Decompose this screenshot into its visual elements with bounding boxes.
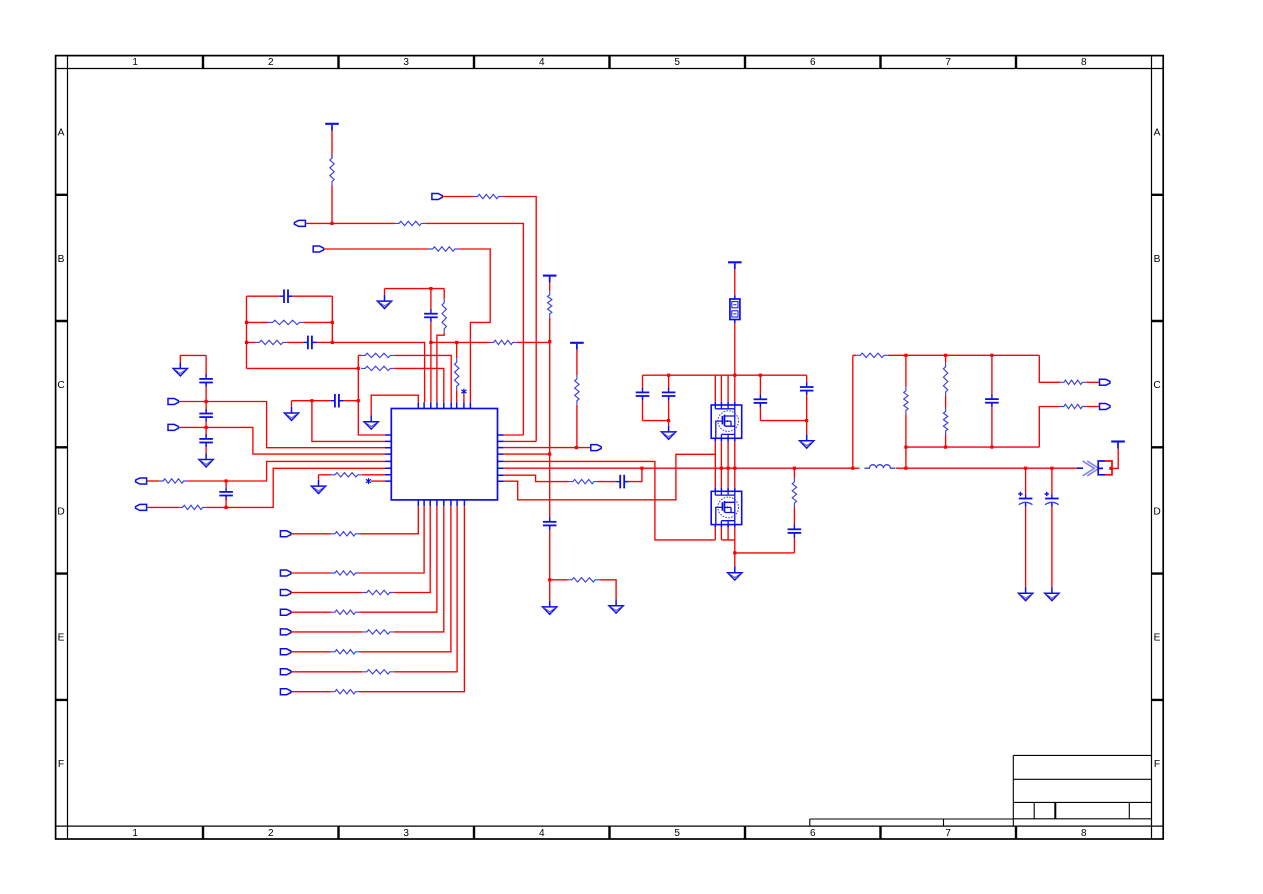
svg-text:F: F xyxy=(1154,759,1160,770)
svg-text:A: A xyxy=(1154,128,1161,139)
cap C13 lower lead xyxy=(806,395,808,420)
port CTL2 xyxy=(168,424,178,430)
caps chain vertical b xyxy=(205,387,207,412)
ground (C17) xyxy=(1019,587,1033,601)
capacitor C2 (RC low) xyxy=(303,336,316,350)
wire VCC1 to R1 xyxy=(331,131,333,158)
wire right pin row4 xyxy=(504,453,550,455)
capacitor C15 xyxy=(788,525,802,538)
RC box top branch wire xyxy=(247,295,280,297)
Q1 bottom lead stubs xyxy=(715,438,735,441)
wire R10 to top pin6 xyxy=(394,355,451,402)
RC mid branch wire right xyxy=(303,321,332,323)
svg-text:5: 5 xyxy=(674,828,680,839)
capacitor C1 (RC top) xyxy=(279,289,292,303)
divider top wire xyxy=(888,354,1039,356)
Q1 top lead stubs xyxy=(715,402,735,405)
wire VIN to bead xyxy=(734,269,736,295)
C16 leg upper xyxy=(991,355,993,395)
resistor R10 xyxy=(361,353,394,357)
junction bus288/cap leg xyxy=(429,287,432,290)
port P6 (bottom group) xyxy=(280,649,290,655)
svg-text:3: 3 xyxy=(403,828,409,839)
port OUT-M (mid) xyxy=(591,445,601,451)
capacitor C13 xyxy=(800,382,814,395)
junction chain/port row401 xyxy=(205,400,208,403)
ground (rail549) xyxy=(543,601,557,615)
wire port P5 to R34 xyxy=(291,631,363,633)
port P8 (bottom group) xyxy=(280,689,290,695)
rail549 to ground xyxy=(549,580,551,601)
junction Q2 source/ground node xyxy=(733,551,736,554)
C16 leg lower xyxy=(991,407,993,447)
junction row400/pinleg xyxy=(310,399,313,402)
junction capleg/RC-output-row xyxy=(429,341,432,344)
svg-text:D: D xyxy=(57,506,64,517)
wire 288.6 bus xyxy=(385,288,445,290)
capacitor C10 xyxy=(636,388,650,401)
capacitor C18 (polarized) xyxy=(1045,492,1059,507)
resistor R35 xyxy=(331,650,360,654)
resistor R33 xyxy=(331,610,360,614)
resistor R31 xyxy=(331,571,360,575)
port IN2 xyxy=(313,246,323,252)
RC low branch lead xyxy=(247,341,256,343)
capacitor C8 xyxy=(199,434,213,447)
svg-text:8: 8 xyxy=(1081,828,1087,839)
wire port CTL1 to left pin row3 xyxy=(179,402,385,448)
resistor R16 (vertical) xyxy=(792,478,796,507)
svg-text:8: 8 xyxy=(1081,57,1087,68)
caps chain vertical c xyxy=(205,422,207,438)
wire port P7 to R36 xyxy=(291,671,363,673)
port P2 (bottom group) xyxy=(280,570,290,576)
cap C13 upper lead xyxy=(806,375,808,383)
wire R24 bottom jog to top pin4 xyxy=(437,333,444,403)
wire R6 to power node xyxy=(517,341,550,343)
wire right pin row5 to LGATE xyxy=(504,461,716,540)
junction mid/R22 xyxy=(944,446,947,449)
port IN1 (right-point) xyxy=(432,194,442,200)
wire R15 to C14 xyxy=(598,481,616,483)
resistor R21 (vertical) xyxy=(943,363,947,396)
port FB1 (right) xyxy=(1100,379,1110,385)
ground (R7) xyxy=(609,600,623,614)
ground (caps chain) xyxy=(173,362,187,376)
resistor R8 (RC mid) xyxy=(269,320,304,324)
RC-row continues right of capleg xyxy=(431,341,457,343)
rail549 to cap C4 xyxy=(549,454,551,517)
wire R30 to bottom pin 1 xyxy=(360,506,419,534)
junction OUT/C17 xyxy=(1024,467,1027,470)
junction SW/Q lead3 xyxy=(727,467,730,470)
junction rail358/RC bottom xyxy=(357,367,360,370)
resistor R34 xyxy=(363,630,394,634)
junction VIN/C11 xyxy=(667,374,670,377)
wire rail358 top to R10 xyxy=(358,354,361,356)
ground (Q2 source) xyxy=(728,567,742,581)
wire port P4 to R33 xyxy=(291,611,331,613)
wire port P8 to R37 xyxy=(291,691,331,693)
capacitor C14 xyxy=(616,475,629,489)
svg-text:7: 7 xyxy=(945,828,951,839)
off-page connector chevrons xyxy=(1083,461,1099,476)
junction gndbus/C13 xyxy=(805,419,808,422)
cap C12 lower lead xyxy=(759,408,761,421)
wire C2 to right rail xyxy=(317,341,333,343)
cap leg lower to pin3 xyxy=(430,322,432,402)
wire R34 to bottom pin 5 xyxy=(394,506,444,632)
resistor R13 xyxy=(179,505,207,509)
wire top to FB port row xyxy=(1039,355,1060,382)
svg-text:D: D xyxy=(1153,506,1160,517)
R21/R22 leg top xyxy=(945,355,947,362)
cap C10 lower lead xyxy=(642,401,644,421)
port P1 (bottom group) xyxy=(280,531,290,537)
junction SW/snubber xyxy=(793,467,796,470)
wire Q2 source node to snubber xyxy=(735,552,795,554)
port P7 (bottom group) xyxy=(280,669,290,675)
wire C5 to rail358 xyxy=(344,400,359,402)
resistor R3 xyxy=(474,194,503,198)
wire bead to VIN bus xyxy=(734,323,736,375)
junction R19leg/mid wire xyxy=(904,446,907,449)
wire right pin row7 jog xyxy=(504,475,569,481)
gnd bus below C12/C13 xyxy=(760,420,806,422)
junction OUT/L-return xyxy=(904,467,907,470)
junction chain/port row427 xyxy=(205,426,208,429)
wire branch to R7 xyxy=(550,579,568,581)
resistor R7 xyxy=(568,578,599,582)
wire R36 to bottom pin 7 xyxy=(394,506,457,672)
wire port P6 to R35 xyxy=(291,651,331,653)
Q2 bottom lead stubs xyxy=(715,524,735,527)
junction SNS+/C9 xyxy=(225,479,228,482)
wire port to R2 xyxy=(305,222,395,224)
resistor R22 (vertical) xyxy=(943,408,947,436)
inductor L1 xyxy=(864,465,895,468)
resistor R5 (vertical) xyxy=(548,291,552,318)
power symbol VCC2 xyxy=(543,276,557,283)
wire C9 down to SNS- xyxy=(225,498,227,508)
resistor R11 xyxy=(361,366,394,370)
cap C11 lower lead xyxy=(668,401,670,421)
R22 to mid wire xyxy=(945,435,947,447)
wire VCC3 to R23 xyxy=(576,350,578,375)
junction RC left mid xyxy=(245,321,248,324)
capacitor C11 xyxy=(662,388,676,401)
wires VIN bus to Q1 top leads xyxy=(715,375,735,402)
wire R31 to bottom pin 2 xyxy=(360,506,425,573)
junction RC left low xyxy=(245,341,248,344)
divider mid wire xyxy=(906,446,1039,448)
wire port CTL2 to left pin row4 xyxy=(179,427,385,454)
gnd drop C13 xyxy=(806,421,808,435)
junction VIN/C12 xyxy=(759,374,762,377)
ground (caps chain bottom) xyxy=(199,453,213,467)
wire gnd corner row474 xyxy=(318,475,320,480)
wire R13 to corner up left pin row6 xyxy=(207,468,385,507)
wire R16 to C15 xyxy=(793,507,795,526)
wire port P1 to R30 xyxy=(291,533,331,535)
wire VCC2 to R5 xyxy=(549,283,551,291)
wire L1 to output node xyxy=(896,467,1077,469)
R19 leg upper xyxy=(905,355,907,387)
C18 upper lead xyxy=(1051,468,1053,494)
rail549 below C4 xyxy=(549,530,551,580)
resistor R1 (vertical) xyxy=(330,154,334,186)
resistor R14 xyxy=(331,473,362,477)
wire SNS- to R13 xyxy=(147,506,179,508)
no-connect asterisk (top pin8) xyxy=(461,389,466,395)
port CTL1 xyxy=(168,399,178,405)
resistor R4 xyxy=(429,247,459,251)
wire R14 to left pin row7 xyxy=(362,474,385,476)
resistor R37 xyxy=(331,690,360,694)
svg-text:B: B xyxy=(1154,254,1161,265)
wire R18 to port FB1 xyxy=(1086,381,1099,383)
wire R24 top corner xyxy=(443,289,445,299)
cap C12 upper lead xyxy=(759,375,761,396)
junction SW/Q lead4 xyxy=(733,467,736,470)
junction RC right low xyxy=(331,341,334,344)
C18 lower lead xyxy=(1051,507,1053,587)
resistor R32 xyxy=(363,590,394,594)
junction rail358/cap row xyxy=(357,399,360,402)
caps chain vertical a xyxy=(205,355,207,376)
svg-text:3: 3 xyxy=(403,57,409,68)
wire port P3 to R32 xyxy=(291,592,363,594)
wire R37 to bottom pin 8 xyxy=(360,506,465,692)
wire R1 to node row223 xyxy=(331,186,333,224)
junction rail549/right pin row4 xyxy=(548,453,551,456)
IC U1 (main controller) xyxy=(391,409,497,500)
resistor R19 (vertical) xyxy=(904,387,908,415)
C17 upper lead xyxy=(1025,468,1027,494)
ground (row400) xyxy=(284,407,298,421)
wire R3 to corner down to right pin row2 xyxy=(503,197,537,442)
junction connector/VOUT xyxy=(1109,467,1112,470)
wire mid to port row2 xyxy=(1039,407,1060,448)
wire port IN1 to R3 xyxy=(443,196,474,198)
resistor R36 xyxy=(363,670,394,674)
divider top wire lead xyxy=(853,354,856,356)
resistor R12 xyxy=(159,479,188,483)
junction top/R19 xyxy=(904,354,907,357)
svg-text:7: 7 xyxy=(945,57,951,68)
junction top/C16 xyxy=(990,354,993,357)
wire port IN2 to R4 xyxy=(324,248,429,250)
svg-text:6: 6 xyxy=(810,57,816,68)
ground (bus288) xyxy=(377,295,391,309)
capacitor C5 (row400) xyxy=(330,394,343,408)
wire right pin row3 to port xyxy=(504,447,591,449)
ground (C18) xyxy=(1045,587,1059,601)
wire R32 to bottom pin 3 xyxy=(394,506,430,592)
off-page connector box (red half) xyxy=(1105,461,1112,475)
ferrite bead FB1 xyxy=(730,299,740,320)
Q2 bottom leads to wires xyxy=(715,528,735,553)
rail x549 down xyxy=(549,342,551,454)
resistor R30 xyxy=(331,532,360,536)
divider rail left xyxy=(852,355,854,468)
junction midport xyxy=(575,446,578,449)
power symbol VIN xyxy=(728,262,742,269)
wire rail358 bottom to left pin row1 xyxy=(358,434,385,436)
resistor R24 (vertical) xyxy=(442,299,446,333)
power symbol VCC1 xyxy=(325,124,339,131)
capacitor C3 xyxy=(424,309,438,322)
svg-text:A: A xyxy=(58,128,65,139)
off-page connector blue tail xyxy=(1077,467,1083,469)
leg row400 to left pin row2 xyxy=(312,401,385,442)
capacitor C6 xyxy=(199,374,213,387)
pin7 leg upper xyxy=(456,342,458,358)
RC box left rail xyxy=(246,296,248,368)
capacitor C17 (polarized) xyxy=(1018,492,1032,507)
junction SW/R15C14 return xyxy=(640,467,643,470)
wire C15 to Q2 source node xyxy=(793,538,795,553)
off-page connector box (blue half) xyxy=(1098,461,1105,475)
sheet border frame xyxy=(56,56,1164,839)
wire R12 to corner up left pin row5 xyxy=(188,461,385,481)
svg-text:4: 4 xyxy=(539,828,545,839)
port P5 (bottom group) xyxy=(280,629,290,635)
ground (C10/C11) xyxy=(662,426,676,440)
no-connect asterisk (left pin row8) xyxy=(366,478,371,484)
wire R5 down to node342 xyxy=(549,318,551,342)
wire R2 to corner and down to right pin row1 xyxy=(425,223,523,435)
wire asterisk to top pin8 xyxy=(463,394,465,402)
port SNS- (left) xyxy=(136,504,147,510)
gnd drop caps chain top-left xyxy=(179,355,181,362)
wire connector to VOUT power xyxy=(1112,449,1118,469)
wire R7 to ground drop xyxy=(599,580,616,600)
cap leg upper xyxy=(430,289,432,310)
gnd bus below C10/C11 xyxy=(643,420,669,422)
junction RC right mid xyxy=(331,321,334,324)
wire port P2 to R31 xyxy=(291,572,331,574)
svg-text:B: B xyxy=(58,254,65,265)
resistor R15 xyxy=(569,479,598,483)
wire C14 up to SW junction xyxy=(629,468,642,481)
junction SNS-/C9 xyxy=(225,506,228,509)
wire row400 xyxy=(292,400,331,402)
ground drop left of bus288 xyxy=(384,289,386,295)
resistor R9 (RC low) xyxy=(255,340,286,344)
wire row342 to R6 xyxy=(457,341,490,343)
cap C11 upper lead xyxy=(668,375,670,389)
port P3 (bottom group) xyxy=(280,590,290,596)
wires Q1 bottom to Q2 top leads xyxy=(715,442,735,488)
power symbol VOUT xyxy=(1111,442,1125,449)
svg-text:C: C xyxy=(1153,380,1160,391)
R19 leg lower xyxy=(905,414,907,468)
capacitor C12 xyxy=(754,395,768,408)
ground (row474) xyxy=(311,480,325,494)
wire R9 to C2 xyxy=(287,341,304,343)
resistor R25 (vertical, pin7 leg) xyxy=(455,358,459,390)
ground (C12/C13) xyxy=(800,435,814,449)
svg-text:2: 2 xyxy=(268,57,274,68)
svg-text:4: 4 xyxy=(539,57,545,68)
junction row223/R1 xyxy=(330,222,333,225)
junction SW/Q lead2 xyxy=(720,467,723,470)
wire SNS+ down to C9 xyxy=(225,481,227,487)
ferrite bead FB1 stubs xyxy=(734,295,736,323)
wire SNS+ to R12 xyxy=(147,480,160,482)
resistor R17 xyxy=(856,353,888,357)
svg-text:E: E xyxy=(1154,633,1161,644)
resistor R23 (vertical) xyxy=(575,375,579,405)
wire row474 lead xyxy=(319,474,332,476)
svg-text:F: F xyxy=(58,759,64,770)
port SNS+ (left) xyxy=(136,478,147,484)
wire R11 to top pin5 xyxy=(394,368,444,402)
resistor R6 xyxy=(490,340,517,344)
junction VIN/bead xyxy=(733,374,736,377)
resistor R18 xyxy=(1060,380,1086,384)
cap C10 upper lead xyxy=(642,375,644,389)
transistor Q2 (low-side MOSFET) xyxy=(711,491,742,524)
wire R4 to jog down to top pin9 xyxy=(459,249,490,402)
port OUT1 (left) xyxy=(294,220,305,226)
wire SW to R16 xyxy=(793,468,795,478)
wire right pin row8 to HGATE bus xyxy=(504,454,716,500)
junction node342/power xyxy=(548,340,551,343)
svg-text:2: 2 xyxy=(268,828,274,839)
VIN bus horizontal xyxy=(643,374,807,376)
capacitor C16 xyxy=(985,395,999,408)
svg-text:C: C xyxy=(57,380,64,391)
resistor R2 xyxy=(395,221,425,225)
wire R35 to bottom pin 6 xyxy=(360,506,451,652)
junction gndbus/C11 xyxy=(667,419,670,422)
wire top pin1 to ground jog xyxy=(371,395,418,415)
wire asterisk to left pin row8 xyxy=(371,480,385,482)
svg-text:1: 1 xyxy=(132,828,138,839)
ground (top pin1) xyxy=(364,416,378,430)
pin7 leg lower xyxy=(456,390,458,402)
caps chain vertical d xyxy=(205,447,207,453)
svg-text:5: 5 xyxy=(674,57,680,68)
RC box right rail xyxy=(331,296,333,342)
svg-text:E: E xyxy=(58,633,65,644)
wire C1 to right rail xyxy=(293,295,333,297)
wire R20 to port FB2 xyxy=(1086,406,1099,408)
wire R23 down to port junction xyxy=(576,405,578,448)
transistor Q1 (high-side MOSFET) xyxy=(711,405,742,438)
capacitor C4 xyxy=(543,517,557,530)
IC U1 pin stubs xyxy=(385,402,504,506)
port P4 (bottom group) xyxy=(280,609,290,615)
junction rail549/R7 branch xyxy=(548,578,551,581)
junction OUT/C18 xyxy=(1050,467,1053,470)
wire R33 to bottom pin 4 xyxy=(360,506,437,612)
capacitor C7 xyxy=(199,409,213,422)
R21 to R22 xyxy=(945,396,947,408)
gnd drop C11 xyxy=(668,421,670,426)
RC box bottom wire to node x358 xyxy=(247,367,359,369)
port FB2 (right) xyxy=(1100,404,1110,410)
Q2 top lead stubs xyxy=(715,488,735,491)
junction SW/divider rail xyxy=(851,467,854,470)
junction mid/C16 xyxy=(990,446,993,449)
RC mid branch wire left xyxy=(247,321,269,323)
switch node wire xyxy=(504,467,860,469)
power symbol VCC3 xyxy=(570,343,584,350)
vertical rail x358 xyxy=(357,355,359,435)
